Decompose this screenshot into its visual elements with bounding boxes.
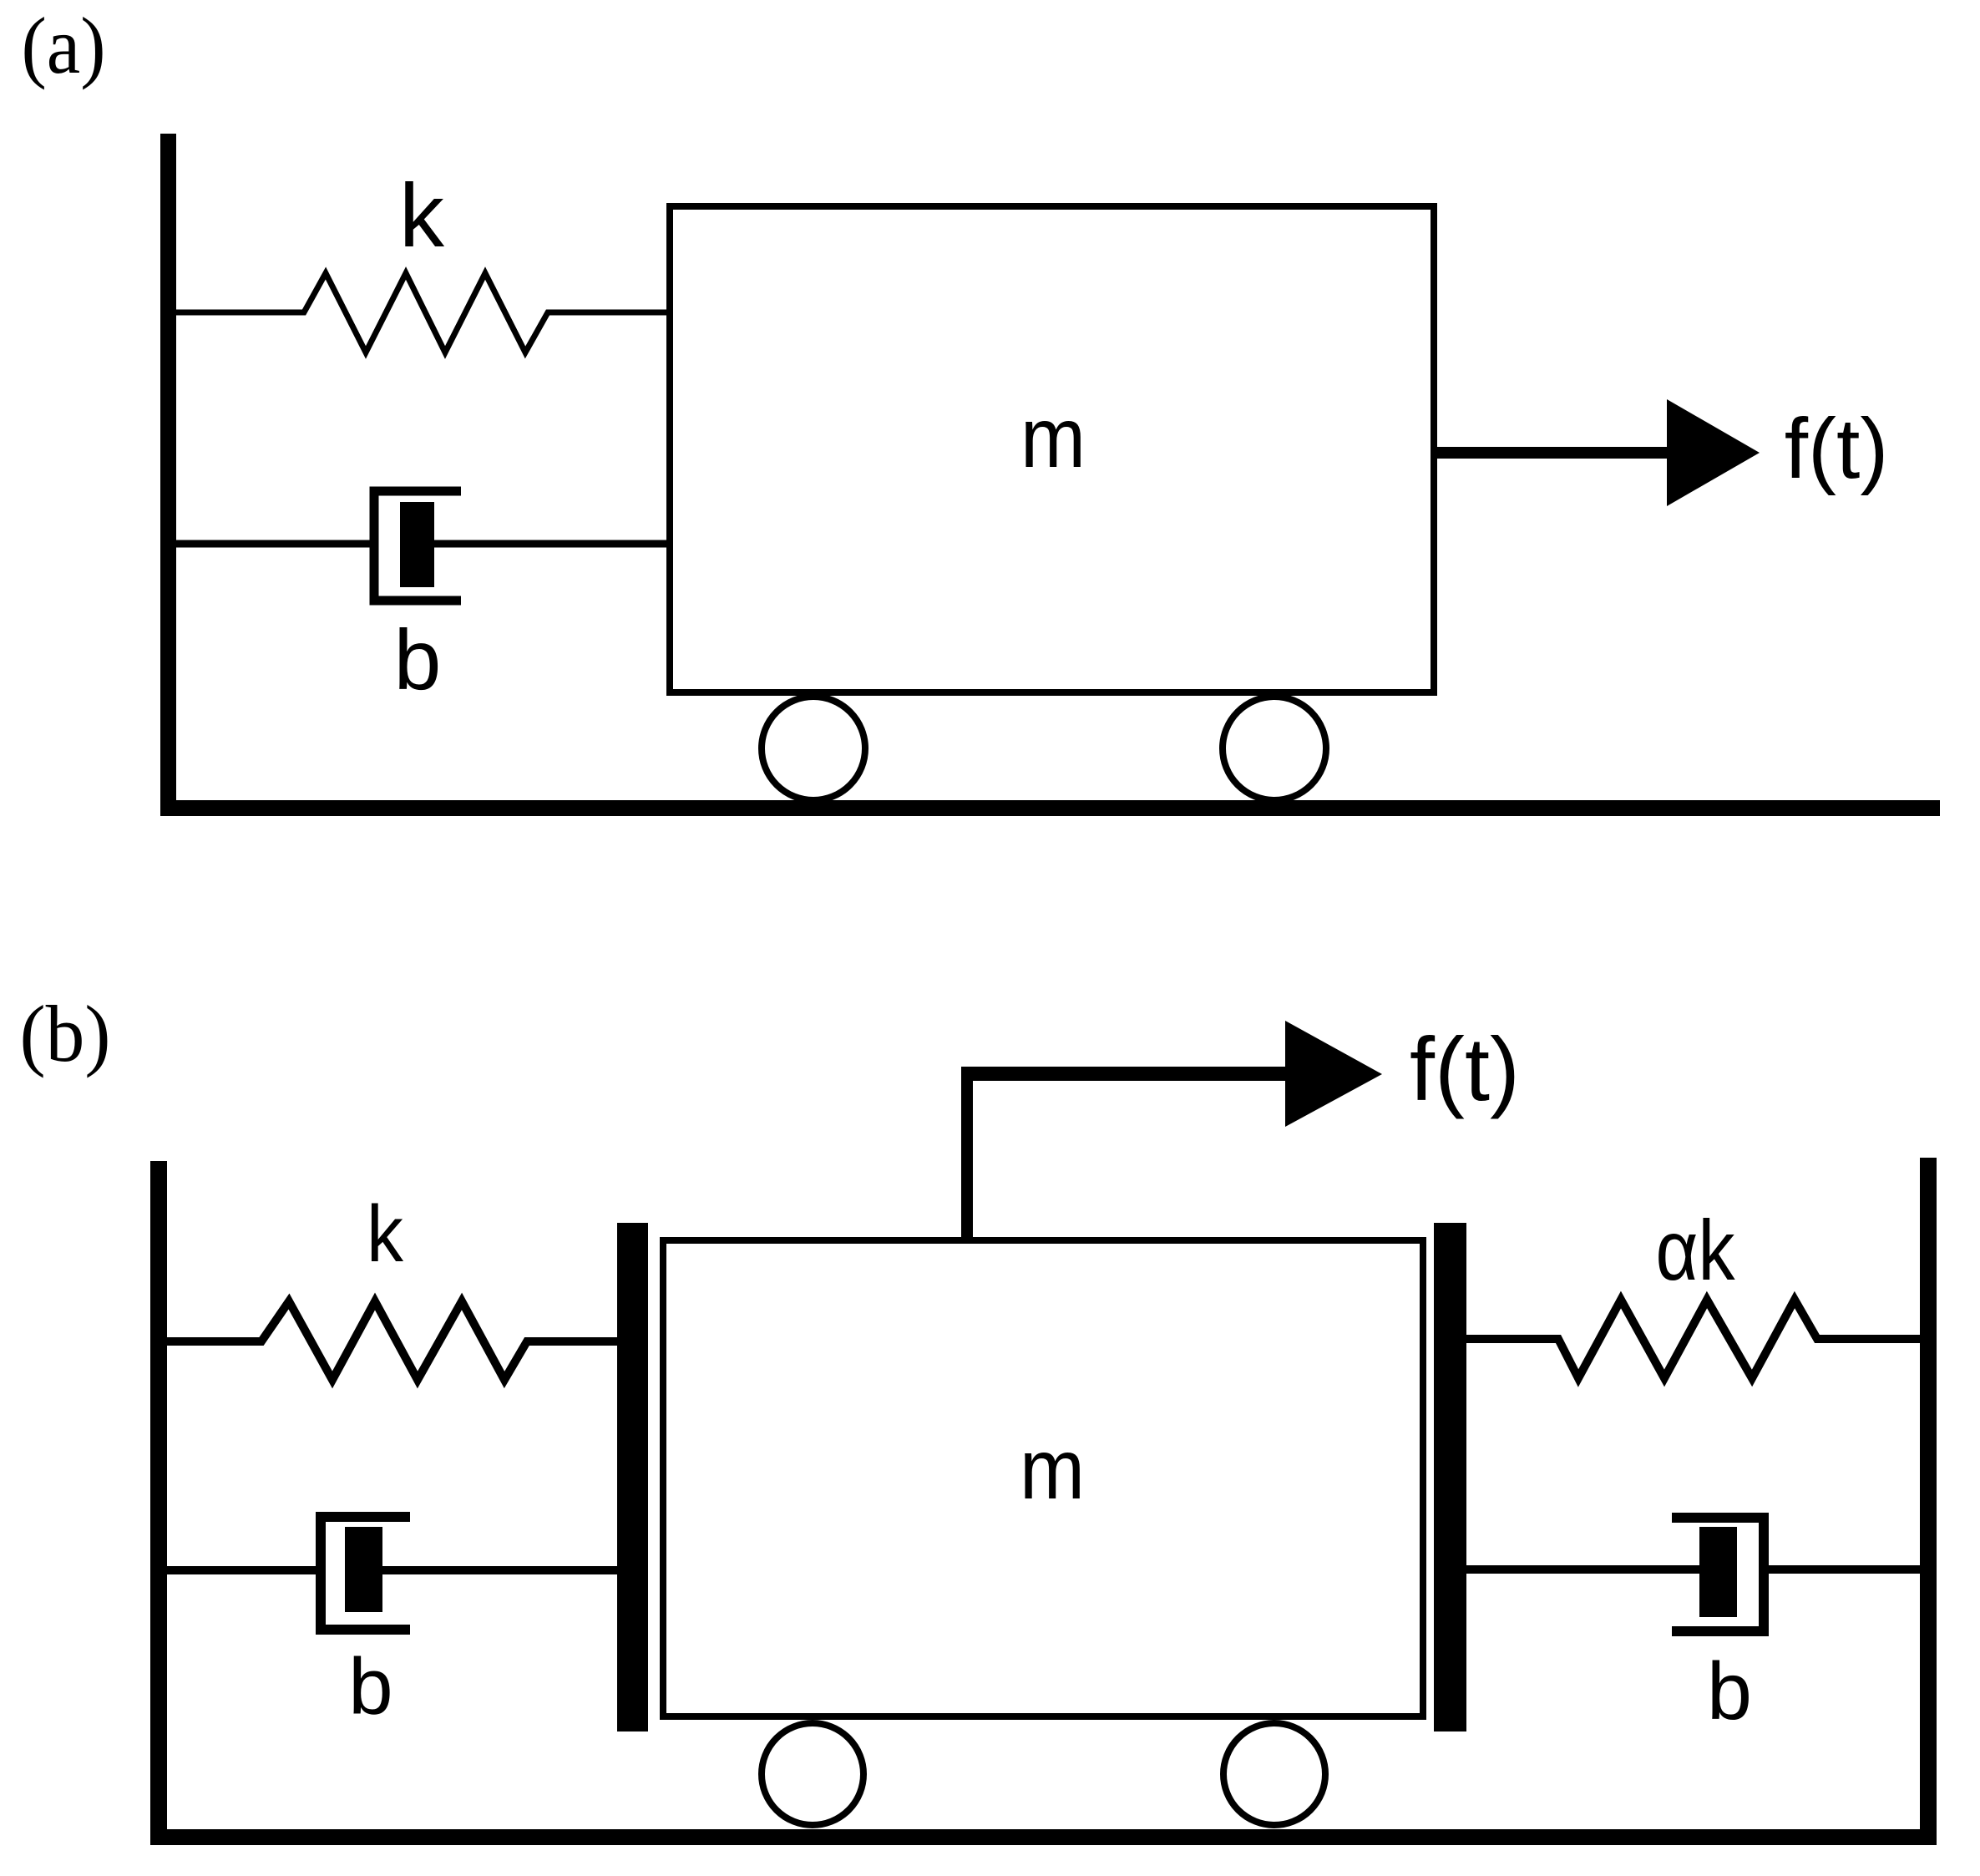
svg-text:αk: αk: [1656, 1203, 1736, 1298]
svg-text:k: k: [367, 1189, 404, 1279]
svg-text:(b): (b): [20, 989, 111, 1078]
svg-text:b: b: [348, 1642, 392, 1731]
svg-text:k: k: [399, 165, 445, 266]
svg-text:m: m: [1020, 390, 1086, 485]
svg-text:(a): (a): [22, 1, 106, 90]
svg-text:b: b: [394, 612, 442, 707]
svg-text:f(t): f(t): [1785, 401, 1889, 496]
svg-text:f(t): f(t): [1410, 1018, 1520, 1119]
svg-text:m: m: [1020, 1422, 1085, 1517]
svg-text:b: b: [1707, 1645, 1752, 1737]
